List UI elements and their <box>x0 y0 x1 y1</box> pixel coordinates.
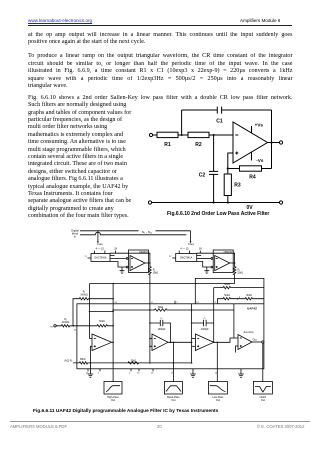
wire DAC1 feedback to opamp output <box>110 253 150 263</box>
wire input to R1 <box>153 134 157 136</box>
opamp U1 box OPA602 <box>129 250 149 273</box>
opamp U2 triangle <box>215 256 230 271</box>
svg-text:C2: C2 <box>199 173 206 179</box>
svg-text:+Vs: +Vs <box>255 123 264 128</box>
ground terminal right <box>279 201 282 204</box>
svg-text:N₁ - N₁₂: N₁ - N₁₂ <box>142 230 153 234</box>
resistor 50k input row <box>73 325 113 327</box>
svg-text:Out: Out <box>261 399 265 402</box>
wire BP column <box>172 342 174 381</box>
paragraph 3 full line <box>28 95 293 103</box>
right DAC pin ticks 4..15 <box>178 251 180 254</box>
svg-text:4 — 15: 4 — 15 <box>96 247 105 250</box>
opamp A2 <box>152 334 168 351</box>
-Vs pin <box>251 152 253 161</box>
wire notch column <box>262 343 264 381</box>
response box high pass <box>104 382 122 395</box>
node R1-R2 junction <box>181 134 183 136</box>
svg-text:Freq: Freq <box>97 242 103 246</box>
wire A1 loop horizontal <box>90 311 114 313</box>
wrapped column <box>28 102 126 108</box>
svg-text:C₂: C₂ <box>204 318 207 320</box>
output node <box>270 141 272 143</box>
DAC2 box <box>176 254 197 262</box>
wire DAC1 out stubs <box>110 255 115 257</box>
svg-text:1: 1 <box>98 372 100 374</box>
wire bus drop right with hop <box>190 231 192 242</box>
digital bus line 2 <box>80 232 186 235</box>
svg-text:50kΩ: 50kΩ <box>131 360 137 362</box>
ground bottom mid <box>190 369 196 378</box>
wire bus drop left with hop <box>97 231 99 242</box>
header link <box>28 18 92 23</box>
svg-text:15kΩ: 15kΩ <box>237 272 243 274</box>
wire W1 left drop to A1 inverting input <box>89 284 91 339</box>
opamp U1 input circles <box>126 258 128 260</box>
opamp U1 triangle <box>130 256 145 271</box>
capacitor C1 <box>216 107 218 114</box>
wire W1 horizontal node <box>90 283 235 285</box>
input terminal <box>149 133 152 136</box>
wire A1 output stub <box>112 341 114 343</box>
header right title <box>240 18 280 23</box>
svg-text:16: 16 <box>151 372 154 374</box>
svg-text:R₀: R₀ <box>64 319 67 321</box>
svg-text:50kΩ: 50kΩ <box>246 295 252 297</box>
caption figure 6.6.10 <box>167 211 269 217</box>
left DAC pin ticks 4..15 <box>94 251 96 254</box>
svg-text:DAC7541A: DAC7541A <box>95 257 107 260</box>
wire A3 out to aux <box>214 338 238 342</box>
svg-text:R1: R1 <box>164 142 171 148</box>
svg-text:UAF42: UAF42 <box>247 306 257 310</box>
wire top left segment <box>182 109 218 111</box>
DAC1 pin 17 stub <box>88 257 92 259</box>
wire C2 branch upper <box>213 135 215 171</box>
op-amp minus symbol <box>235 134 238 136</box>
svg-text:49.9kΩ: 49.9kΩ <box>62 322 70 324</box>
svg-text:18: 18 <box>114 247 117 250</box>
svg-text:Out: Out <box>111 399 115 402</box>
svg-text:In: In <box>51 324 54 328</box>
wire U2 output <box>230 262 235 264</box>
svg-text:R3: R3 <box>234 182 241 188</box>
input terminal In <box>54 325 56 327</box>
wire op-amp output <box>268 142 280 144</box>
wire R1 to R2 <box>178 134 188 136</box>
node R3-R4 junction <box>227 167 229 169</box>
left DAC pin tick 18 <box>115 251 117 254</box>
svg-text:R₁: R₁ <box>83 291 86 293</box>
column A3 input <box>191 304 193 363</box>
paragraph 1 <box>28 32 293 40</box>
column A2 input <box>149 284 151 363</box>
ground below U2 plus input <box>204 267 209 274</box>
ground below U1 plus input <box>120 267 125 274</box>
header rule <box>28 24 292 27</box>
wire HP column <box>112 342 114 381</box>
svg-text:Aux Amp: Aux Amp <box>244 331 255 334</box>
svg-text:17: 17 <box>169 256 172 258</box>
aux out terminal <box>262 341 264 343</box>
svg-text:18: 18 <box>199 247 202 250</box>
wire R2 to op-amp <box>209 134 233 136</box>
ground RQ <box>88 363 94 378</box>
svg-text:OPA602: OPA602 <box>224 251 234 254</box>
resistor RIN 49.9k <box>56 325 73 327</box>
wire A2 input stubs <box>150 338 152 340</box>
wire plus input <box>228 153 233 169</box>
wire U1 output <box>145 262 150 264</box>
node R3 ground <box>227 201 229 203</box>
opamp A1 <box>92 334 112 351</box>
svg-text:1000pF: 1000pF <box>158 329 166 331</box>
capacitor C2 <box>209 170 218 172</box>
right DAC pin tick 18 <box>199 251 201 254</box>
output terminal <box>279 141 282 144</box>
feedback row upper 50k <box>214 286 264 303</box>
svg-text:R₀: R₀ <box>237 269 240 271</box>
digital bus line 1 <box>80 230 139 232</box>
wire C2 branch lower <box>213 174 215 202</box>
+Vs pin <box>251 126 253 133</box>
svg-text:2: 2 <box>129 372 131 374</box>
wire LP column <box>216 342 218 381</box>
wire A2 out to A3 <box>168 341 192 343</box>
wire R3 lower lead <box>227 196 229 203</box>
DAC2 pin 17 stub <box>172 257 176 259</box>
node C2 ground <box>213 201 215 203</box>
svg-text:50kΩ: 50kΩ <box>224 284 230 286</box>
paragraph 2 <box>28 53 293 61</box>
svg-text:DAC7541A: DAC7541A <box>180 257 192 260</box>
resistor 50k mid bottom <box>128 362 139 364</box>
svg-text:R₀: R₀ <box>153 269 156 271</box>
svg-text:OPA602: OPA602 <box>139 251 149 254</box>
svg-text:Out: Out <box>171 399 175 402</box>
svg-text:Out: Out <box>216 399 220 402</box>
capacitor C1 integrator loop <box>150 323 171 342</box>
wire summing row inside box <box>113 309 234 311</box>
wire R4 left lead <box>228 168 240 170</box>
aux amp column <box>233 304 235 338</box>
wire aux out <box>252 341 262 343</box>
wire aux plus stub <box>236 346 239 353</box>
svg-text:4 — 15: 4 — 15 <box>180 247 189 250</box>
svg-text:12: 12 <box>74 329 77 331</box>
wire A1 plus to RQ row <box>90 346 92 363</box>
svg-text:Out: Out <box>253 338 257 341</box>
resistor R3 <box>224 174 231 196</box>
wire R3 upper lead <box>227 169 229 175</box>
capacitor C2 integrator loop <box>192 322 214 324</box>
svg-text:(HC) R₀: (HC) R₀ <box>64 361 72 363</box>
response box notch <box>253 382 272 395</box>
resistor R2 <box>188 132 209 137</box>
response box band pass <box>164 382 182 395</box>
UAF42 main box <box>77 304 264 369</box>
svg-text:50kΩ: 50kΩ <box>224 295 230 297</box>
svg-text:34.8kΩ: 34.8kΩ <box>80 294 88 296</box>
svg-text:-Vs: -Vs <box>256 158 264 163</box>
svg-text:C₁: C₁ <box>160 318 163 320</box>
feedback row lower two 50k <box>218 298 264 304</box>
opamp U2 box OPA602 <box>213 250 233 273</box>
svg-text:15kΩ: 15kΩ <box>153 272 159 274</box>
resistor R15k right (vertical zigzag) <box>233 263 236 284</box>
wire top right segment <box>222 109 272 111</box>
resistor R15k left (vertical zigzag) <box>149 263 152 284</box>
footer right <box>257 424 304 429</box>
svg-text:R2: R2 <box>195 142 202 148</box>
bottom pin ticks <box>87 369 89 371</box>
resistor RF 34.8k row <box>73 298 113 326</box>
wire R4 right lead <box>262 168 272 170</box>
svg-text:1000pF: 1000pF <box>201 329 209 331</box>
op-amp U1 <box>233 122 268 163</box>
ground bottom right <box>238 369 244 378</box>
svg-text:(7): (7) <box>171 372 174 374</box>
opamp A4 aux <box>238 335 252 350</box>
node C2 tap <box>213 134 215 136</box>
wire feedback node line <box>271 110 273 169</box>
DAC1 box <box>91 254 110 262</box>
opamp A3 <box>195 334 213 351</box>
response box low pass <box>208 382 227 395</box>
RQ entry and resistor 50k <box>73 362 192 364</box>
svg-text:C1: C1 <box>216 118 223 124</box>
wire junction up to top <box>181 110 183 135</box>
svg-text:0V: 0V <box>246 205 253 211</box>
wire DAC2 output row to right edge <box>195 278 264 303</box>
op-amp plus symbol <box>235 152 238 154</box>
wire 0V rail <box>152 202 280 204</box>
resistor R1 <box>157 132 178 137</box>
svg-text:50kΩ: 50kΩ <box>99 321 105 323</box>
svg-text:Freq: Freq <box>188 242 194 246</box>
node column A1 output <box>112 284 114 343</box>
ground terminal left <box>148 201 151 204</box>
node column A3 out / LP feedback <box>213 288 215 343</box>
caption figure 6.6.11 <box>33 409 218 414</box>
wire DAC2 feedback to opamp output <box>197 253 235 263</box>
wire DAC2 out stubs <box>197 255 202 257</box>
footer page number <box>157 424 162 429</box>
wire A3 input stubs <box>192 338 196 340</box>
wire A1 minus stub <box>90 338 93 340</box>
footer left <box>10 424 67 429</box>
footer rule <box>10 420 310 423</box>
resistor R4 <box>240 166 262 171</box>
svg-text:R4: R4 <box>249 175 256 181</box>
svg-text:17: 17 <box>84 256 87 258</box>
svg-text:50kΩ: 50kΩ <box>158 307 164 309</box>
svg-text:10: 10 <box>137 372 140 374</box>
svg-text:50kΩ: 50kΩ <box>80 359 86 361</box>
